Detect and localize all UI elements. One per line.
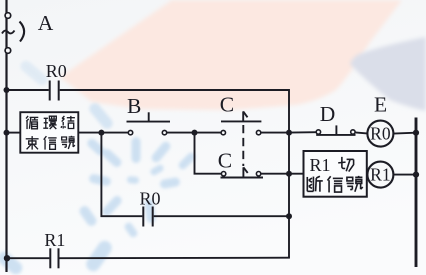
junction node (vertical bus / R1 rung) <box>286 171 292 177</box>
pushbutton contact B (NO) <box>127 112 171 135</box>
left power rail <box>5 0 7 272</box>
wire: rung1 from left rail to contact R0 <box>7 89 49 91</box>
wire: node to contact C upper <box>195 132 222 134</box>
limit switch contact C (upper, NO, spring return) <box>221 111 261 134</box>
svg-text:E: E <box>374 93 387 117</box>
svg-text:A: A <box>38 11 54 35</box>
limit switch contact C (lower, NC, spring return) <box>221 167 264 177</box>
junction: left rail / R0 rung <box>4 87 10 93</box>
wire: rung2 left rail to annotation box <box>7 132 21 134</box>
relay contact R0 (rung 1, NO) <box>50 81 59 101</box>
svg-text:R0: R0 <box>46 61 67 81</box>
junction: vertical bus / R0 bottom rung <box>286 213 292 219</box>
wire: B to node <box>167 132 195 134</box>
wire: node to pushbutton B <box>101 132 128 134</box>
wire: D to coil R0 <box>355 132 367 133</box>
annotation box R1 切斷信號 (R1 cutoff signal) <box>304 151 367 197</box>
wire: lower C to node <box>261 173 289 175</box>
wire: branch down from rung2 node to lower C <box>195 133 222 174</box>
right power rail <box>415 118 418 268</box>
svg-text:C: C <box>218 148 232 172</box>
junction node (rung1 drop / rung2) <box>286 130 292 136</box>
junction node (rung2 / bottom R0 branch) <box>98 130 104 136</box>
svg-text:R1: R1 <box>310 155 331 175</box>
svg-text:D: D <box>320 102 336 126</box>
svg-text:R1: R1 <box>370 165 390 185</box>
wire: node to annotation box <box>289 173 304 175</box>
relay coil R0 <box>367 121 393 147</box>
wire: coil R0 to right rail <box>393 132 416 135</box>
wire: coil R1 to right rail <box>393 174 416 176</box>
junction: right rail / R1 coil rung <box>413 172 419 178</box>
svg-text:R0: R0 <box>140 189 161 209</box>
wire: node to contact D <box>289 131 316 133</box>
wire: left rail to contact R1 <box>7 257 50 259</box>
limit switch A <box>2 13 24 54</box>
relay contact R0 (bottom rung, NO) <box>143 207 152 227</box>
wire: rung1 right segment with corner down to rung2 <box>60 90 289 133</box>
annotation box 循環結束信號 (cycle end signal) <box>20 112 78 153</box>
junction: left rail / rung2 <box>4 130 10 136</box>
pushbutton contact D (NC) <box>316 125 355 134</box>
wire: box to node <box>78 132 101 134</box>
wire: R1 contact to vertical bus corner <box>60 257 290 260</box>
svg-text:R0: R0 <box>370 124 391 144</box>
junction: right rail / R0 coil rung <box>413 130 419 136</box>
junction: left rail / R1 bottom rung <box>4 255 10 261</box>
svg-text:C: C <box>220 92 234 116</box>
wire: box to coil R1 <box>366 174 369 176</box>
wire: C upper to node <box>261 132 289 134</box>
wire: from rung2 node down to bottom contact R0 <box>101 133 142 217</box>
relay coil R1 <box>367 162 393 188</box>
wire: bottom R0 to vertical bus <box>154 215 289 217</box>
svg-text:R1: R1 <box>44 230 65 250</box>
junction node (rung2 / branch to lower C) <box>192 130 198 136</box>
relay contact R1 (bottom rung, NO) <box>50 248 58 268</box>
mechanical link between C contacts (dashed) <box>242 125 244 166</box>
wire: vertical bus x=289 <box>288 133 290 258</box>
svg-text:B: B <box>127 94 141 118</box>
